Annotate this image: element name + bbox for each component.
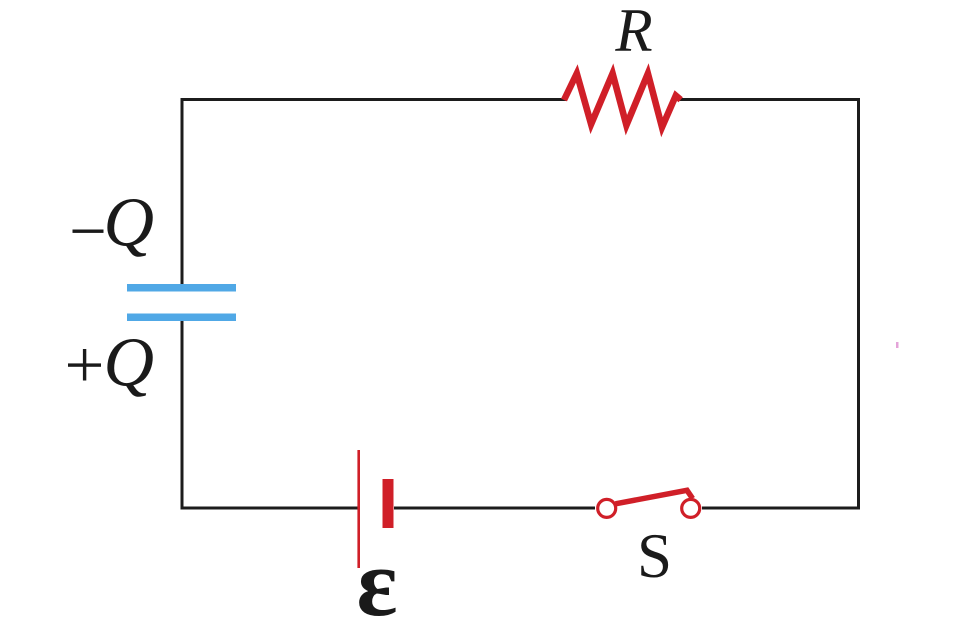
svg-text:ε: ε	[356, 529, 397, 636]
switch lever	[616, 490, 693, 504]
resistor R	[564, 74, 681, 128]
capacitor bottom plate	[127, 314, 236, 322]
switch left contact	[598, 499, 616, 517]
label +Q	[68, 325, 154, 402]
wire: top wire right part + right wire + bottom wire right part	[679, 100, 859, 509]
svg-text:S: S	[637, 521, 672, 591]
stray magenta mark	[896, 342, 899, 348]
wire: top-left corner run (top wire left part + left wire upper part)	[182, 100, 566, 285]
svg-text:Q: Q	[104, 185, 155, 262]
svg-text:R: R	[614, 0, 652, 65]
switch right contact	[682, 499, 700, 517]
label -Q	[73, 185, 155, 262]
svg-text:Q: Q	[104, 325, 155, 402]
battery short thick plate	[383, 479, 394, 528]
capacitor top plate	[127, 284, 236, 292]
wire: bottom wire middle part (battery to switch)	[394, 507, 595, 510]
battery long thin plate	[357, 450, 360, 568]
wire: left wire lower part + bottom wire left part	[182, 321, 358, 508]
